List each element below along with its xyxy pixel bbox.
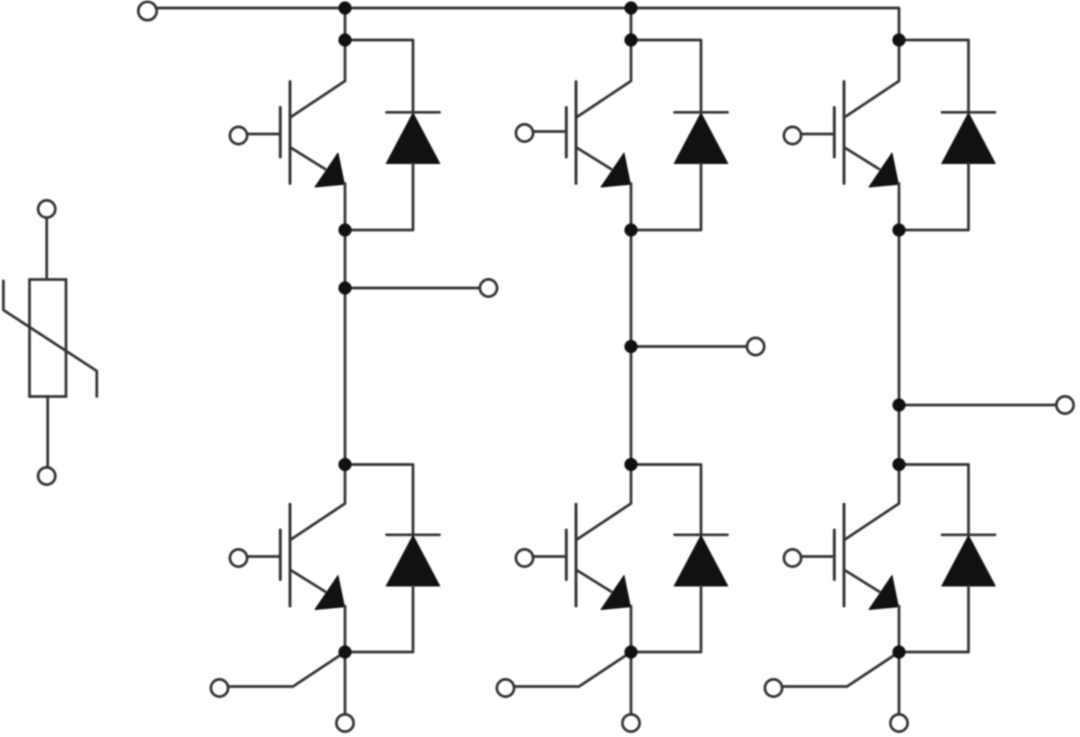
wire D5 cathode branch xyxy=(631,465,701,535)
wire top collector stub leg 2 xyxy=(577,40,632,117)
wire Q6 gate lead xyxy=(801,555,835,558)
diode D3 cathode bar xyxy=(942,111,995,114)
node phase leg 1 xyxy=(338,281,351,294)
node top collector leg 3 xyxy=(892,33,905,46)
node top collector leg 1 xyxy=(338,33,351,46)
wire thermistor top lead xyxy=(45,217,48,280)
transistor Q3 body bar xyxy=(843,82,846,184)
transistor Q3 emitter arrow xyxy=(869,153,898,187)
wire Q4 emitter down xyxy=(344,606,347,652)
wire bottom terminal lead leg 1 xyxy=(344,652,347,715)
wire phase tap leg 2 xyxy=(631,345,748,348)
transistor Q5 emitter arrow xyxy=(601,576,630,610)
wire Q1 emitter down xyxy=(344,184,347,231)
wire D3 anode branch xyxy=(899,164,969,231)
wire aux emitter leg 1 xyxy=(228,652,345,687)
node bottom collector leg 3 xyxy=(892,458,905,471)
wire thermistor bottom lead xyxy=(46,397,49,469)
wire phase column leg 1 xyxy=(344,230,347,465)
transistor Q1 emitter diagonal xyxy=(291,148,326,170)
terminal OUT2 (phase output) xyxy=(747,338,764,355)
node top collector leg 2 xyxy=(624,33,637,46)
wire bottom collector stub leg 2 xyxy=(577,465,632,540)
thermistor RT1 diagonal mark xyxy=(3,281,96,397)
wire bottom collector stub leg 3 xyxy=(845,465,900,540)
wire aux emitter leg 2 xyxy=(514,652,631,687)
node bus junction leg 2 xyxy=(624,1,637,14)
wire D1 anode branch xyxy=(345,164,413,231)
node bottom emitter leg 1 xyxy=(338,645,351,658)
transistor Q6 gate bar xyxy=(833,530,836,580)
node top emitter leg 2 xyxy=(624,223,637,236)
transistor Q4 emitter diagonal xyxy=(291,570,326,592)
terminal E2 (aux emitter) xyxy=(497,679,514,696)
node phase leg 3 xyxy=(892,398,905,411)
diode D3 triangle xyxy=(942,113,995,164)
transistor Q6 body bar xyxy=(843,504,846,606)
transistor Q2 gate bar xyxy=(565,108,568,158)
transistor Q5 gate bar xyxy=(565,530,568,580)
wire Q3 gate lead xyxy=(801,133,835,136)
wire DC+ bus xyxy=(156,8,899,40)
wire D5 anode branch xyxy=(631,586,701,652)
terminal N2 (emitter output) xyxy=(622,714,639,731)
wire D6 anode branch xyxy=(899,586,969,652)
wire top collector stub leg 3 xyxy=(845,40,900,117)
terminal OUT3 (phase output) xyxy=(1056,396,1073,413)
wire D2 anode branch xyxy=(631,164,701,231)
wire Q3 emitter down xyxy=(898,184,901,231)
node bottom collector leg 2 xyxy=(624,458,637,471)
wire Q1 gate lead xyxy=(247,133,281,136)
diode D2 triangle xyxy=(674,113,727,164)
terminal G2 (top gate) xyxy=(516,124,533,141)
wire bottom collector stub leg 1 xyxy=(291,465,346,540)
terminal G3 (top gate) xyxy=(784,127,801,144)
transistor Q1 body bar xyxy=(289,82,292,184)
wire D1 cathode branch xyxy=(345,40,413,112)
terminal G4 (bottom gate) xyxy=(230,549,247,566)
diode D6 triangle xyxy=(942,536,995,587)
wire D3 cathode branch xyxy=(899,40,969,112)
wire bottom terminal lead leg 2 xyxy=(630,652,633,715)
wire bottom terminal lead leg 3 xyxy=(898,652,901,715)
node top emitter leg 3 xyxy=(892,223,905,236)
transistor Q1 emitter arrow xyxy=(315,153,344,187)
diode D1 triangle xyxy=(386,113,439,164)
thermistor RT1 body xyxy=(30,280,67,397)
transistor Q6 emitter diagonal xyxy=(845,570,880,592)
wire Q2 emitter down xyxy=(630,184,633,231)
transistor Q4 gate bar xyxy=(279,530,282,580)
terminal E3 (aux emitter) xyxy=(765,679,782,696)
transistor Q2 emitter arrow xyxy=(601,153,630,187)
wire bus drop leg 1 xyxy=(344,8,347,40)
wire D6 cathode branch xyxy=(899,465,969,535)
node bottom collector leg 1 xyxy=(338,458,351,471)
node bottom emitter leg 2 xyxy=(624,645,637,658)
terminal E1 (aux emitter) xyxy=(211,679,228,696)
diode D4 cathode bar xyxy=(387,533,440,536)
transistor Q5 body bar xyxy=(575,504,578,606)
wire Q6 emitter down xyxy=(898,606,901,652)
diode D5 triangle xyxy=(674,536,727,587)
transistor Q4 body bar xyxy=(289,504,292,606)
transistor Q5 emitter diagonal xyxy=(577,570,612,592)
wire bus drop leg 2 xyxy=(630,8,633,40)
wire top collector stub leg 1 xyxy=(291,40,346,117)
diode D5 cathode bar xyxy=(675,533,728,536)
wire D4 anode branch xyxy=(345,586,413,652)
terminal G1 (top gate) xyxy=(230,127,247,144)
node phase leg 2 xyxy=(624,340,637,353)
diode D4 triangle xyxy=(386,536,439,587)
wire aux emitter leg 3 xyxy=(782,652,899,687)
transistor Q3 gate bar xyxy=(833,108,836,158)
terminal P (DC+ input) xyxy=(138,2,156,20)
wire phase tap leg 3 xyxy=(899,404,1057,407)
terminal OUT1 (phase output) xyxy=(480,279,497,296)
wire Q4 gate lead xyxy=(247,555,281,558)
diode D2 cathode bar xyxy=(675,111,728,114)
node bus junction leg 1 xyxy=(338,1,351,14)
transistor Q4 emitter arrow xyxy=(315,576,344,610)
diode D1 cathode bar xyxy=(387,111,440,114)
wire Q5 gate lead xyxy=(533,555,567,558)
terminal T2 (thermistor bottom) xyxy=(38,467,55,484)
wire D4 cathode branch xyxy=(345,465,413,535)
transistor Q6 emitter arrow xyxy=(869,576,898,610)
wire Q5 emitter down xyxy=(630,606,633,652)
node top emitter leg 1 xyxy=(338,223,351,236)
wire D2 cathode branch xyxy=(631,40,701,112)
terminal N1 (emitter output) xyxy=(336,714,353,731)
transistor Q1 gate bar xyxy=(279,108,282,158)
transistor Q3 emitter diagonal xyxy=(845,148,880,170)
wire phase tap leg 1 xyxy=(345,287,481,290)
terminal T1 (thermistor top) xyxy=(38,200,55,217)
transistor Q2 body bar xyxy=(575,82,578,184)
wire phase column leg 3 xyxy=(898,230,901,465)
diode D6 cathode bar xyxy=(942,533,995,536)
wire phase column leg 2 xyxy=(630,230,633,465)
terminal N3 (emitter output) xyxy=(890,714,907,731)
terminal G5 (bottom gate) xyxy=(516,549,533,566)
terminal G6 (bottom gate) xyxy=(784,549,801,566)
transistor Q2 emitter diagonal xyxy=(577,148,612,170)
node bottom emitter leg 3 xyxy=(892,645,905,658)
wire Q2 gate lead xyxy=(533,130,567,133)
